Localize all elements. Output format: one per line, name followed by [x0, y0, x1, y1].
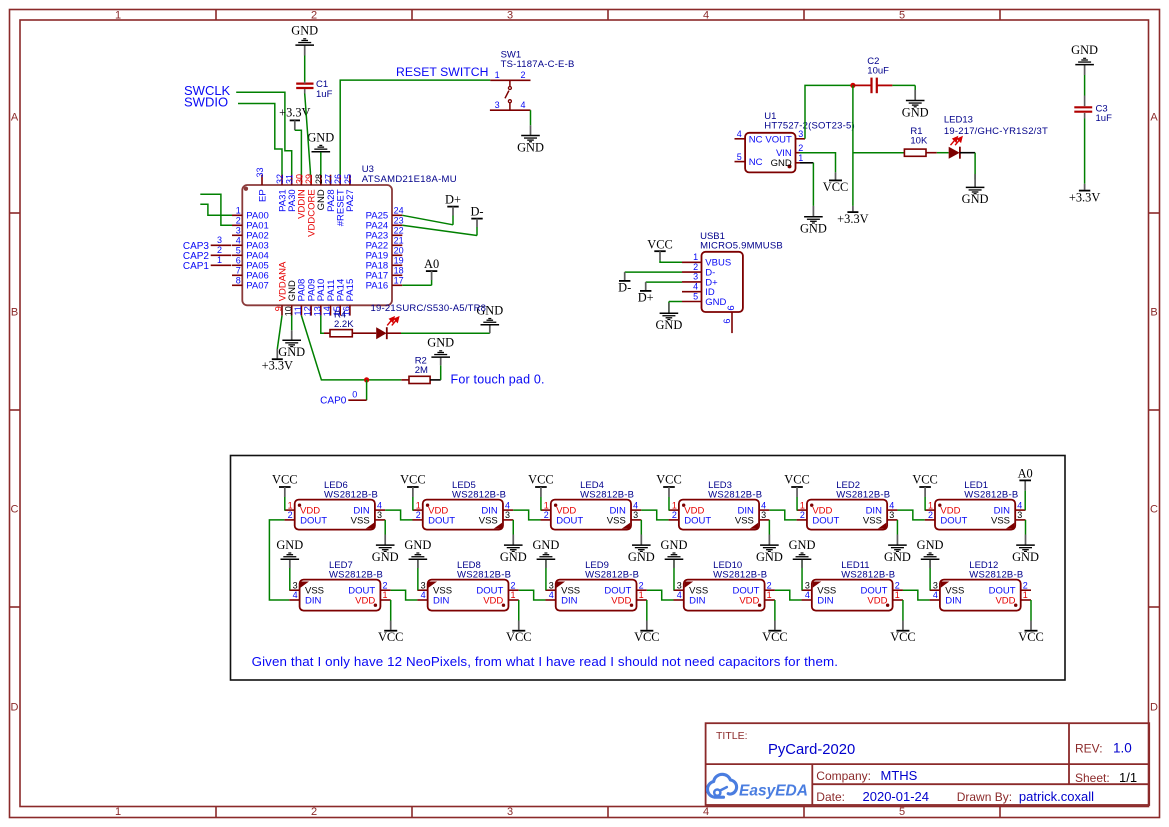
svg-text:+3.3V: +3.3V	[837, 212, 868, 226]
svg-text:2: 2	[383, 580, 388, 590]
svg-text:PA15: PA15	[345, 279, 356, 302]
svg-text:1: 1	[217, 255, 222, 265]
svg-text:VCC: VCC	[912, 472, 937, 486]
svg-text:4: 4	[703, 10, 709, 22]
svg-text:13: 13	[312, 306, 322, 316]
svg-text:20: 20	[394, 246, 404, 256]
svg-text:Drawn By:: Drawn By:	[957, 790, 1012, 804]
svg-text:8: 8	[236, 276, 241, 286]
svg-text:3: 3	[889, 510, 894, 520]
svg-text:1: 1	[416, 500, 421, 510]
svg-text:NC: NC	[749, 134, 763, 145]
svg-text:NC: NC	[749, 157, 763, 168]
svg-text:VCC: VCC	[762, 630, 787, 644]
svg-text:27: 27	[324, 174, 334, 184]
svg-text:2: 2	[311, 10, 317, 22]
svg-text:A: A	[11, 112, 19, 124]
svg-text:DOUT: DOUT	[684, 515, 711, 526]
svg-text:3: 3	[377, 510, 382, 520]
svg-text:2: 2	[895, 580, 900, 590]
svg-text:2: 2	[236, 216, 241, 226]
svg-text:26: 26	[333, 174, 343, 184]
svg-text:19: 19	[394, 256, 404, 266]
svg-text:GND: GND	[291, 24, 318, 38]
svg-text:PA27: PA27	[345, 189, 356, 212]
svg-text:GND: GND	[1012, 550, 1039, 564]
svg-text:32: 32	[275, 174, 285, 184]
svg-text:2: 2	[288, 510, 293, 520]
svg-text:9: 9	[274, 306, 284, 311]
svg-text:GND: GND	[917, 538, 944, 552]
svg-text:6: 6	[726, 305, 737, 310]
svg-text:5: 5	[899, 10, 905, 22]
svg-text:RESET SWITCH: RESET SWITCH	[396, 65, 488, 79]
svg-text:CAP0: CAP0	[320, 396, 347, 407]
svg-text:1: 1	[115, 10, 121, 22]
svg-text:3: 3	[1017, 510, 1022, 520]
svg-text:2: 2	[511, 580, 516, 590]
svg-text:VCC: VCC	[506, 630, 531, 644]
svg-text:1: 1	[639, 590, 644, 600]
svg-text:WS2812B-B: WS2812B-B	[580, 489, 634, 500]
svg-text:VDD: VDD	[867, 595, 887, 606]
svg-text:3: 3	[761, 510, 766, 520]
svg-text:GND: GND	[789, 538, 816, 552]
svg-text:1: 1	[544, 500, 549, 510]
svg-text:4: 4	[677, 590, 682, 600]
svg-text:2: 2	[544, 510, 549, 520]
svg-text:3: 3	[693, 272, 698, 282]
svg-text:GND: GND	[705, 297, 726, 308]
svg-text:+3.3V: +3.3V	[1069, 190, 1100, 204]
svg-text:A0: A0	[424, 257, 439, 271]
svg-text:DIN: DIN	[561, 595, 578, 606]
svg-text:EasyEDA: EasyEDA	[739, 782, 808, 799]
svg-text:GND: GND	[517, 140, 544, 154]
svg-text:WS2812B-B: WS2812B-B	[708, 489, 762, 500]
svg-text:5: 5	[236, 246, 241, 256]
svg-text:24: 24	[394, 206, 404, 216]
svg-text:17: 17	[394, 276, 404, 286]
svg-text:1: 1	[511, 590, 516, 600]
svg-text:33: 33	[255, 167, 265, 177]
svg-text:WS2812B-B: WS2812B-B	[457, 570, 511, 581]
svg-text:WS2812B-B: WS2812B-B	[329, 570, 383, 581]
svg-text:VDD: VDD	[611, 595, 631, 606]
svg-text:SWDIO: SWDIO	[184, 94, 228, 109]
svg-text:GND: GND	[756, 550, 783, 564]
svg-text:VDD: VDD	[355, 595, 375, 606]
svg-text:2: 2	[672, 510, 677, 520]
svg-text:2: 2	[311, 806, 317, 818]
svg-text:DOUT: DOUT	[300, 515, 327, 526]
svg-text:C: C	[11, 504, 19, 516]
svg-text:VSS: VSS	[479, 515, 498, 526]
svg-text:3: 3	[293, 580, 298, 590]
svg-text:4: 4	[933, 590, 938, 600]
svg-text:2: 2	[693, 262, 698, 272]
svg-text:4: 4	[805, 590, 810, 600]
svg-text:GND: GND	[532, 538, 559, 552]
svg-text:DIN: DIN	[689, 595, 706, 606]
svg-text:VSS: VSS	[607, 515, 626, 526]
svg-text:VCC: VCC	[528, 472, 553, 486]
svg-text:DOUT: DOUT	[556, 515, 583, 526]
svg-text:29: 29	[304, 174, 314, 184]
svg-text:1: 1	[236, 206, 241, 216]
svg-text:Company:: Company:	[816, 769, 871, 783]
svg-text:D-: D-	[470, 205, 483, 219]
svg-text:2: 2	[767, 580, 772, 590]
svg-text:3: 3	[549, 580, 554, 590]
svg-text:WS2812B-B: WS2812B-B	[713, 570, 767, 581]
svg-text:GND: GND	[427, 336, 454, 350]
svg-text:WS2812B-B: WS2812B-B	[836, 489, 890, 500]
svg-text:WS2812B-B: WS2812B-B	[452, 489, 506, 500]
svg-text:GND: GND	[962, 192, 989, 206]
svg-text:VCC: VCC	[890, 630, 915, 644]
svg-text:VDD: VDD	[739, 595, 759, 606]
svg-text:PA07: PA07	[246, 281, 269, 292]
svg-text:2020-01-24: 2020-01-24	[863, 789, 930, 804]
svg-text:DOUT: DOUT	[812, 515, 839, 526]
svg-text:3: 3	[421, 580, 426, 590]
svg-text:4: 4	[293, 590, 298, 600]
svg-text:D+: D+	[638, 290, 654, 304]
svg-text:PA16: PA16	[366, 281, 389, 292]
svg-text:D+: D+	[445, 193, 461, 207]
svg-text:WS2812B-B: WS2812B-B	[585, 570, 639, 581]
svg-text:4: 4	[1017, 500, 1022, 510]
svg-text:PyCard-2020: PyCard-2020	[768, 742, 855, 758]
svg-text:LED13: LED13	[944, 114, 973, 125]
svg-text:B: B	[1150, 307, 1157, 319]
svg-text:1: 1	[383, 590, 388, 600]
svg-text:VCC: VCC	[378, 630, 403, 644]
svg-text:VCC: VCC	[647, 237, 672, 251]
svg-text:WS2812B-B: WS2812B-B	[841, 570, 895, 581]
svg-text:31: 31	[285, 174, 295, 184]
svg-text:6: 6	[236, 256, 241, 266]
svg-text:1: 1	[895, 590, 900, 600]
svg-text:GND: GND	[902, 105, 929, 119]
svg-text:VDD: VDD	[483, 595, 503, 606]
svg-text:GND: GND	[661, 538, 688, 552]
svg-text:GND: GND	[655, 318, 682, 332]
svg-text:WS2812B-B: WS2812B-B	[969, 570, 1023, 581]
svg-text:1: 1	[495, 70, 500, 80]
svg-text:VSS: VSS	[735, 515, 754, 526]
svg-text:4: 4	[633, 500, 638, 510]
svg-text:4: 4	[889, 500, 894, 510]
svg-text:25: 25	[343, 174, 353, 184]
svg-text:WS2812B-B: WS2812B-B	[324, 489, 378, 500]
svg-text:EP: EP	[257, 189, 268, 202]
svg-text:3: 3	[217, 235, 222, 245]
svg-text:GND: GND	[884, 550, 911, 564]
svg-text:C: C	[1150, 504, 1158, 516]
svg-text:19-217/GHC-YR1S2/3T: 19-217/GHC-YR1S2/3T	[944, 126, 1048, 137]
svg-text:B: B	[11, 307, 18, 319]
svg-text:4: 4	[737, 129, 742, 139]
svg-text:1: 1	[1023, 590, 1028, 600]
svg-text:REV:: REV:	[1075, 742, 1103, 756]
svg-text:2: 2	[521, 70, 526, 80]
svg-text:ATSAMD21E18A-MU: ATSAMD21E18A-MU	[362, 174, 457, 185]
svg-text:DIN: DIN	[305, 595, 322, 606]
svg-text:3: 3	[805, 580, 810, 590]
svg-text:DOUT: DOUT	[940, 515, 967, 526]
svg-text:2: 2	[798, 143, 803, 153]
svg-text:5: 5	[693, 291, 698, 301]
svg-text:10uF: 10uF	[867, 66, 889, 77]
svg-text:2: 2	[639, 580, 644, 590]
svg-text:GND: GND	[500, 550, 527, 564]
svg-text:14: 14	[322, 306, 332, 316]
svg-text:1: 1	[798, 153, 803, 163]
svg-text:5: 5	[737, 152, 742, 162]
svg-text:1: 1	[672, 500, 677, 510]
svg-text:2: 2	[800, 510, 805, 520]
svg-text:2: 2	[416, 510, 421, 520]
svg-text:GND: GND	[404, 538, 431, 552]
svg-text:VCC: VCC	[400, 472, 425, 486]
svg-text:4: 4	[505, 500, 510, 510]
svg-text:19-21SURC/S530-A5/TR8: 19-21SURC/S530-A5/TR8	[371, 303, 487, 314]
svg-text:11: 11	[293, 306, 303, 315]
svg-text:WS2812B-B: WS2812B-B	[964, 489, 1018, 500]
svg-text:1.0: 1.0	[1113, 741, 1132, 756]
svg-text:VCC: VCC	[823, 180, 848, 194]
svg-text:DIN: DIN	[817, 595, 834, 606]
svg-text:TS-1187A-C-E-B: TS-1187A-C-E-B	[501, 59, 575, 70]
svg-text:28: 28	[314, 174, 324, 184]
svg-text:3: 3	[495, 100, 500, 110]
svg-text:VCC: VCC	[656, 472, 681, 486]
svg-text:For touch pad 0.: For touch pad 0.	[451, 373, 545, 387]
svg-text:MTHS: MTHS	[881, 768, 918, 783]
svg-text:12: 12	[303, 306, 313, 316]
svg-text:4: 4	[549, 590, 554, 600]
svg-text:VCC: VCC	[272, 472, 297, 486]
svg-text:4: 4	[693, 282, 698, 292]
svg-text:4: 4	[703, 806, 709, 818]
svg-text:1: 1	[767, 590, 772, 600]
svg-text:3: 3	[933, 580, 938, 590]
svg-text:D: D	[11, 702, 19, 714]
svg-text:VCC: VCC	[1018, 630, 1043, 644]
svg-text:2M: 2M	[415, 365, 428, 376]
svg-text:1: 1	[693, 252, 698, 262]
svg-text:1: 1	[928, 500, 933, 510]
svg-text:3: 3	[236, 226, 241, 236]
svg-text:HT7527-2(SOT23-5): HT7527-2(SOT23-5)	[764, 121, 855, 132]
svg-text:2: 2	[1023, 580, 1028, 590]
svg-text:4: 4	[377, 500, 382, 510]
svg-text:GND: GND	[278, 345, 305, 359]
svg-text:GND: GND	[800, 222, 827, 236]
svg-text:Given that I only have 12 NeoP: Given that I only have 12 NeoPixels, fro…	[252, 654, 838, 669]
svg-text:22: 22	[394, 226, 404, 236]
svg-text:21: 21	[394, 236, 404, 246]
svg-text:4: 4	[761, 500, 766, 510]
svg-text:VSS: VSS	[991, 515, 1010, 526]
svg-text:3: 3	[505, 510, 510, 520]
svg-text:DIN: DIN	[945, 595, 962, 606]
svg-text:MICRO5.9MMUSB: MICRO5.9MMUSB	[700, 240, 783, 251]
svg-text:4: 4	[236, 236, 241, 246]
svg-text:A: A	[1150, 112, 1158, 124]
svg-text:4: 4	[421, 590, 426, 600]
svg-text:patrick.coxall: patrick.coxall	[1019, 789, 1094, 804]
svg-text:VOUT: VOUT	[765, 134, 792, 145]
svg-text:A0: A0	[1018, 467, 1033, 481]
svg-text:1/1: 1/1	[1119, 770, 1137, 785]
svg-text:10: 10	[283, 306, 293, 316]
svg-text:30: 30	[294, 174, 304, 184]
svg-text:GND: GND	[372, 550, 399, 564]
svg-text:1: 1	[800, 500, 805, 510]
svg-text:1uF: 1uF	[1096, 113, 1113, 124]
svg-text:3: 3	[677, 580, 682, 590]
svg-text:VDD: VDD	[995, 595, 1015, 606]
svg-text:7: 7	[236, 266, 241, 276]
svg-text:DIN: DIN	[433, 595, 450, 606]
svg-text:VCC: VCC	[784, 472, 809, 486]
svg-text:DOUT: DOUT	[428, 515, 455, 526]
svg-text:3: 3	[633, 510, 638, 520]
svg-text:GND: GND	[307, 130, 334, 144]
svg-text:VSS: VSS	[863, 515, 882, 526]
svg-text:23: 23	[394, 216, 404, 226]
svg-text:CAP1: CAP1	[183, 261, 210, 272]
svg-text:GND: GND	[628, 550, 655, 564]
svg-text:GND: GND	[771, 158, 792, 169]
svg-text:5: 5	[899, 806, 905, 818]
svg-text:3: 3	[507, 806, 513, 818]
svg-text:3: 3	[507, 10, 513, 22]
svg-text:1: 1	[288, 500, 293, 510]
svg-text:2: 2	[928, 510, 933, 520]
svg-text:Date:: Date:	[816, 790, 845, 804]
svg-text:D-: D-	[618, 280, 631, 294]
svg-text:4: 4	[521, 100, 526, 110]
svg-text:2.2K: 2.2K	[334, 319, 354, 330]
svg-text:18: 18	[394, 266, 404, 276]
svg-text:2: 2	[217, 245, 222, 255]
svg-text:VSS: VSS	[351, 515, 370, 526]
svg-text:10K: 10K	[910, 136, 928, 147]
svg-text:1uF: 1uF	[316, 89, 333, 100]
svg-text:Sheet:: Sheet:	[1075, 771, 1110, 785]
svg-text:VCC: VCC	[634, 630, 659, 644]
svg-text:1: 1	[115, 806, 121, 818]
svg-text:6: 6	[722, 319, 732, 324]
svg-text:GND: GND	[276, 538, 303, 552]
svg-text:D: D	[1150, 702, 1158, 714]
svg-text:+3.3V: +3.3V	[262, 359, 293, 373]
svg-text:GND: GND	[1071, 43, 1098, 57]
svg-text:TITLE:: TITLE:	[716, 730, 748, 742]
svg-text:0: 0	[352, 390, 357, 400]
svg-text:3: 3	[798, 129, 803, 139]
